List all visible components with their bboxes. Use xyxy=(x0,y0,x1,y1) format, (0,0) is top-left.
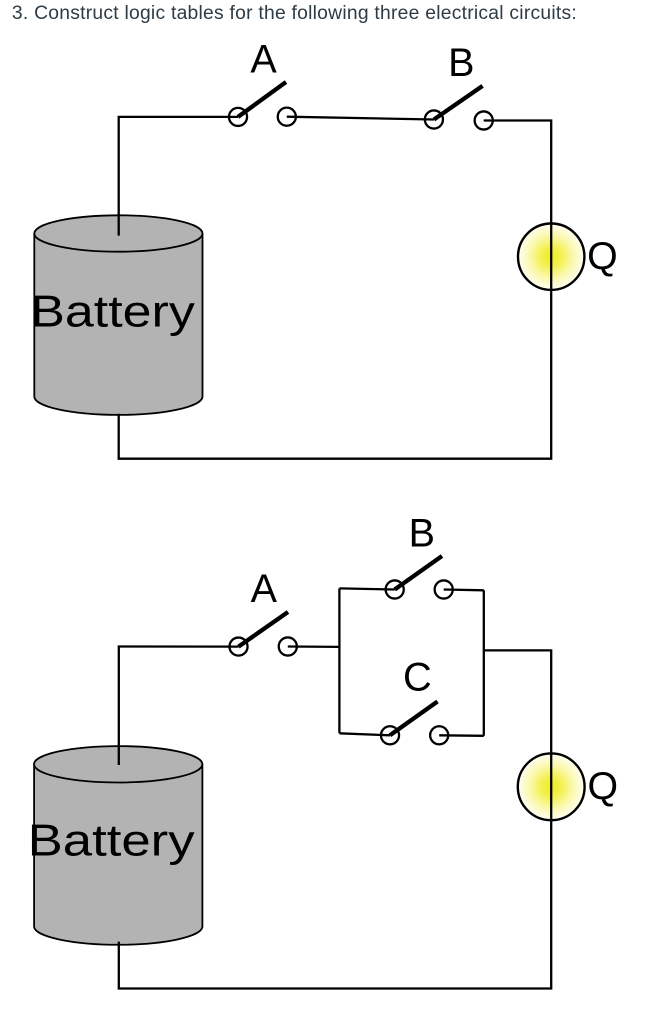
lamp Q2 xyxy=(518,753,585,820)
svg-text:3. Construct logic tables for: 3. Construct logic tables for the follow… xyxy=(12,3,577,24)
switch A1 lever xyxy=(238,82,286,117)
battery BT1 (cylinder body) xyxy=(34,234,202,415)
battery BT2 (cylinder body) xyxy=(34,764,202,944)
switch B2 left contact xyxy=(386,580,404,598)
svg-text:A: A xyxy=(250,37,277,81)
switch A1 right contact xyxy=(278,108,296,126)
svg-text:Battery: Battery xyxy=(30,288,195,337)
wire: parallel block right rail xyxy=(483,590,485,736)
switch C right contact xyxy=(430,726,448,744)
svg-text:A: A xyxy=(251,567,278,611)
switch C lever xyxy=(390,702,438,736)
lamp Q1 xyxy=(518,224,584,290)
svg-text:B: B xyxy=(409,511,435,555)
switch B1 right contact xyxy=(475,111,493,129)
svg-text:Battery: Battery xyxy=(28,817,196,866)
switch A2 right contact xyxy=(279,637,297,655)
battery BT1 top ellipse xyxy=(34,215,202,251)
svg-text:Q: Q xyxy=(588,764,619,808)
wire: parallel block left rail xyxy=(338,588,340,733)
svg-text:Q: Q xyxy=(587,234,618,278)
svg-text:C: C xyxy=(403,656,432,700)
switch B1 lever xyxy=(434,86,483,120)
switch A2 left contact xyxy=(229,638,247,656)
wire: battery top to switch A1 xyxy=(119,117,238,236)
wire: switch B2 to right rail xyxy=(444,588,484,591)
switch A1 left contact xyxy=(229,108,247,126)
wire: battery bottom, bottom run, right side up through lamp to switch B1 xyxy=(119,121,552,459)
svg-text:B: B xyxy=(448,41,474,85)
switch C left contact xyxy=(381,726,399,744)
wire: battery BT2 top to switch A2 xyxy=(119,647,239,766)
wire: left rail to switch B2 xyxy=(339,588,394,589)
switch B1 left contact xyxy=(425,110,443,128)
wire: switch C to right rail xyxy=(439,734,484,737)
wire: battery BT2 bottom, bottom run, right side up through lamp Q2 to right rail xyxy=(119,650,551,988)
switch A2 lever xyxy=(239,612,289,647)
switch B2 lever xyxy=(395,556,442,590)
battery BT2 top ellipse xyxy=(34,746,202,782)
switch B2 right contact xyxy=(435,580,453,598)
wire: switch A1 to switch B1 xyxy=(287,117,434,120)
wire: switch A2 to parallel block left rail xyxy=(288,645,340,648)
wire: left rail to switch C xyxy=(339,733,390,735)
